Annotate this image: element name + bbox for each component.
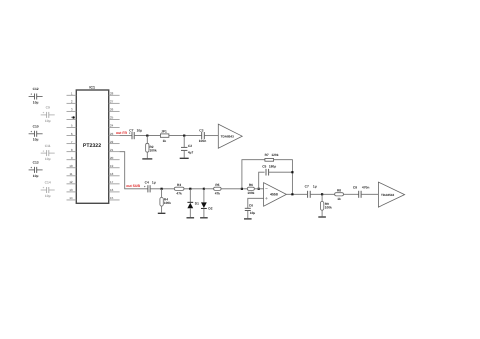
node junction C2	[183, 135, 185, 137]
resistor R6	[247, 183, 254, 195]
svg-text:4µ7: 4µ7	[188, 151, 194, 155]
wire JP1 to C2 node	[169, 135, 202, 137]
svg-text:R8: R8	[337, 189, 341, 193]
svg-text:10µ: 10µ	[45, 119, 51, 123]
ground	[318, 216, 326, 218]
svg-text:1µ: 1µ	[152, 181, 156, 185]
capacitor C7 coupling	[129, 128, 142, 139]
svg-text:22: 22	[110, 140, 114, 144]
svg-text:TDA8543: TDA8543	[381, 193, 395, 197]
capacitor C2	[181, 136, 194, 158]
pin 6	[67, 132, 77, 136]
wire pin23 to C7	[120, 135, 132, 137]
svg-text:+: +	[43, 111, 45, 115]
pin 18	[109, 172, 120, 176]
pin 4	[67, 116, 77, 120]
ground	[200, 217, 208, 219]
capacitor C6	[245, 204, 256, 218]
svg-text:JP1: JP1	[161, 130, 167, 134]
node junction C5 R7 output	[291, 171, 293, 173]
svg-text:+: +	[30, 166, 32, 170]
pin 14	[67, 196, 77, 200]
wire C7 to R8	[310, 193, 334, 195]
pin 9	[67, 156, 77, 160]
wire C7 to JP1	[134, 135, 160, 137]
pin 21	[109, 148, 120, 152]
svg-text:D2: D2	[208, 207, 212, 211]
svg-text:16: 16	[110, 188, 114, 192]
resistor R4	[160, 189, 171, 213]
svg-text:100k: 100k	[164, 201, 171, 205]
wire non-inverting input to C6	[248, 198, 264, 208]
capacitor C12	[29, 87, 43, 104]
svg-text:10: 10	[69, 164, 73, 168]
diode D1	[187, 189, 199, 217]
capacitor C11	[41, 144, 55, 161]
capacitor C10	[29, 125, 43, 142]
svg-text:+: +	[30, 92, 32, 96]
pin 23	[109, 132, 120, 136]
svg-text:10µ: 10µ	[45, 194, 51, 198]
pin 7	[67, 140, 77, 144]
svg-text:28: 28	[110, 92, 114, 96]
wire R3 to D1	[184, 188, 204, 190]
pin 25	[109, 116, 120, 120]
svg-text:11: 11	[69, 172, 72, 176]
svg-text:C10: C10	[33, 125, 39, 129]
pin 5	[67, 124, 77, 128]
pin 19	[109, 164, 120, 168]
resistor R2	[146, 136, 157, 159]
wire feedback left	[242, 160, 265, 189]
pin 27	[109, 100, 120, 104]
ground	[158, 212, 166, 214]
resistor R3	[174, 183, 184, 195]
amplifier U4 TDA8543	[378, 182, 404, 207]
svg-text:20: 20	[110, 156, 114, 160]
ground	[244, 218, 252, 220]
wire C3 to amplifier	[204, 135, 218, 137]
svg-text:C5: C5	[262, 164, 266, 168]
pin 11	[67, 172, 77, 176]
svg-text:C13: C13	[33, 161, 39, 165]
svg-text:14: 14	[69, 196, 73, 200]
capacitor C3	[199, 128, 207, 143]
capacitor C4	[144, 181, 156, 193]
pin 20	[109, 156, 120, 160]
pin 3	[67, 108, 77, 112]
pin 8	[67, 148, 77, 152]
svg-text:+: +	[30, 130, 32, 134]
node junction C5 tap	[258, 188, 260, 190]
svg-text:C7: C7	[305, 185, 309, 189]
pin 10	[67, 164, 77, 168]
svg-text:18: 18	[110, 172, 114, 176]
node junction R9	[321, 193, 323, 195]
svg-text:25: 25	[110, 116, 114, 120]
pin 26	[109, 108, 120, 112]
svg-text:out FR: out FR	[116, 131, 128, 135]
svg-text:IC1: IC1	[89, 85, 95, 89]
svg-text:180p: 180p	[269, 164, 276, 168]
svg-text:23: 23	[110, 132, 114, 136]
capacitor C9	[41, 106, 55, 123]
svg-text:13: 13	[69, 188, 73, 192]
svg-text:19: 19	[110, 164, 114, 168]
svg-text:R3: R3	[177, 183, 181, 187]
wire C8 to amplifier	[361, 193, 378, 195]
op-amp U3 4558	[264, 183, 287, 207]
capacitor C13	[29, 161, 43, 178]
node A junction R7	[241, 188, 243, 190]
svg-text:47k: 47k	[215, 191, 221, 195]
IC IC1 PT2322 body	[76, 90, 108, 203]
svg-text:100k: 100k	[325, 205, 332, 209]
capacitor C14	[41, 181, 55, 198]
node junction C7 R2	[146, 135, 148, 137]
jumper JP1	[160, 130, 169, 143]
resistor R7	[265, 153, 279, 161]
svg-text:1µ: 1µ	[313, 185, 317, 189]
svg-text:C6: C6	[249, 204, 253, 208]
wire R6 to op-amp	[254, 188, 263, 190]
pin 24	[109, 124, 120, 128]
svg-text:+: +	[144, 184, 146, 188]
svg-text:120k: 120k	[271, 153, 278, 157]
svg-text:C8: C8	[353, 186, 357, 190]
svg-text:R5: R5	[215, 183, 219, 187]
pin 22	[109, 140, 120, 144]
svg-text:10µ: 10µ	[33, 100, 39, 104]
svg-text:10µ: 10µ	[137, 128, 143, 132]
svg-text:R6: R6	[249, 183, 253, 187]
svg-text:PT2322: PT2322	[83, 143, 101, 149]
wire C4 to R3	[150, 188, 174, 190]
node junction D2	[203, 188, 205, 190]
wire op-amp output	[286, 193, 307, 195]
pin 2	[67, 100, 77, 104]
svg-text:out SUB: out SUB	[126, 184, 140, 188]
svg-text:12: 12	[69, 180, 73, 184]
wire R5 to node A	[221, 188, 247, 190]
svg-text:4558: 4558	[270, 193, 278, 197]
resistor R5	[214, 183, 222, 195]
ground	[187, 217, 195, 219]
svg-text:10µ: 10µ	[33, 138, 39, 142]
svg-text:TDA8543: TDA8543	[221, 134, 235, 138]
pin 28	[109, 92, 120, 96]
ground	[180, 157, 189, 159]
svg-text:100k: 100k	[247, 191, 254, 195]
svg-text:C3: C3	[199, 128, 203, 132]
capacitor C5	[262, 164, 292, 175]
resistor R9	[320, 194, 332, 216]
svg-text:10µ: 10µ	[45, 157, 51, 161]
ground	[142, 158, 152, 160]
wire pin21 to out SUB row	[120, 152, 148, 189]
wire D2 to R5	[204, 188, 214, 190]
svg-text:C7: C7	[129, 128, 133, 132]
node junction output feedback	[291, 193, 293, 195]
node junction D1	[189, 188, 191, 190]
amplifier U2 TDA8543	[218, 124, 242, 148]
resistor R8	[335, 189, 344, 201]
wire C5 branch	[259, 172, 265, 189]
svg-text:C11: C11	[45, 144, 51, 148]
svg-text:470n: 470n	[362, 186, 370, 190]
svg-text:17: 17	[110, 180, 114, 184]
svg-text:47k: 47k	[176, 191, 182, 195]
svg-text:C14: C14	[45, 181, 51, 185]
wire R8 to C8	[344, 193, 359, 195]
svg-text:R7: R7	[265, 153, 269, 157]
pin 12	[67, 180, 77, 184]
wire feedback right	[274, 160, 293, 194]
capacitor C8	[353, 186, 370, 198]
svg-text:24: 24	[110, 124, 114, 128]
svg-text:100n: 100n	[199, 139, 207, 143]
pin 13	[67, 188, 77, 192]
node pin 4 junction dot	[72, 116, 74, 118]
svg-text:1k: 1k	[163, 139, 167, 143]
svg-text:+: +	[43, 186, 45, 190]
svg-text:C12: C12	[33, 87, 39, 91]
svg-text:C9: C9	[46, 106, 50, 110]
pin 16	[109, 188, 120, 192]
svg-text:C4: C4	[145, 181, 149, 185]
svg-text:1k: 1k	[337, 197, 341, 201]
svg-text:10µ: 10µ	[33, 174, 39, 178]
capacitor C7	[305, 185, 317, 198]
diode D2	[201, 189, 213, 217]
svg-text:10µ: 10µ	[250, 211, 256, 215]
svg-text:D1: D1	[195, 201, 199, 205]
svg-text:26: 26	[110, 108, 114, 112]
svg-text:100k: 100k	[150, 149, 157, 153]
node junction C4 R4	[161, 188, 163, 190]
pin 17	[109, 180, 120, 184]
svg-text:+: +	[43, 149, 45, 153]
svg-text:15: 15	[110, 196, 114, 200]
pin 1	[67, 92, 77, 96]
svg-text:21: 21	[110, 148, 114, 152]
svg-text:C2: C2	[188, 144, 192, 148]
svg-text:27: 27	[110, 100, 114, 104]
pin 15	[109, 196, 120, 200]
